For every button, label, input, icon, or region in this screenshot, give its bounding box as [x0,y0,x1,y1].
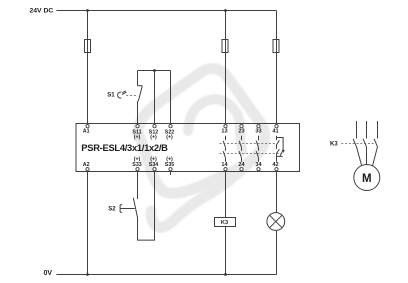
svg-text:M: M [362,173,372,185]
svg-text:S34: S34 [149,162,158,168]
svg-text:24V DC: 24V DC [30,8,54,15]
svg-text:24: 24 [238,162,245,168]
svg-text:14: 14 [221,162,228,168]
svg-text:S35: S35 [165,162,174,168]
svg-text:S33: S33 [132,162,141,168]
svg-text:A1: A1 [83,128,90,134]
svg-text:(+): (+) [150,134,157,140]
svg-text:A2: A2 [83,162,90,168]
svg-text:S1: S1 [107,92,115,98]
svg-text:13: 13 [221,129,227,135]
svg-text:34: 34 [255,162,262,168]
svg-text:23: 23 [238,129,244,135]
svg-text:S2: S2 [108,207,116,213]
svg-text:(+): (+) [134,134,141,140]
svg-text:K3: K3 [221,220,228,226]
svg-text:PSR-ESL4/3x1/1x2/B: PSR-ESL4/3x1/1x2/B [81,142,168,153]
svg-text:K3: K3 [330,142,338,148]
svg-text:0V: 0V [44,270,53,277]
svg-text:42: 42 [272,162,278,168]
svg-text:33: 33 [255,129,261,135]
svg-text:41: 41 [272,129,278,135]
svg-text:(+): (+) [166,134,173,140]
